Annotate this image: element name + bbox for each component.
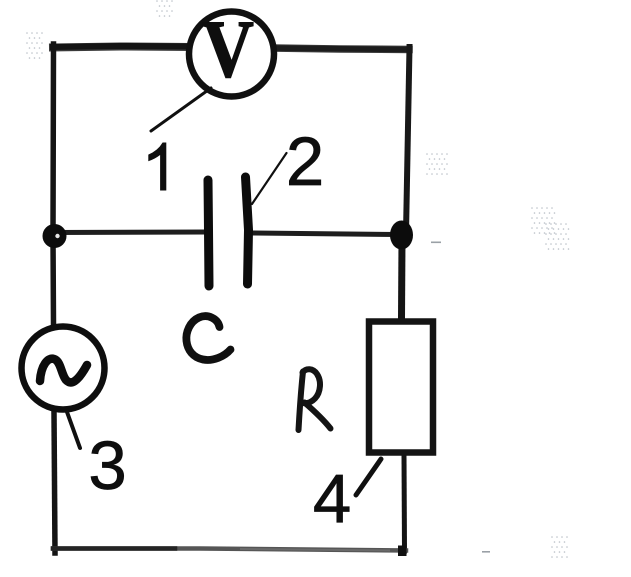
label 3 bbox=[88, 427, 126, 504]
node right junction bbox=[390, 221, 413, 250]
svg-text:V: V bbox=[202, 4, 254, 95]
leader line to label 3 bbox=[67, 412, 80, 448]
AC source G1 circle bbox=[22, 327, 105, 410]
label C (handwritten) bbox=[186, 316, 230, 360]
label 4 bbox=[313, 460, 351, 537]
AC source tilde bbox=[40, 359, 87, 383]
label R (handwritten) bbox=[299, 369, 331, 430]
leader line to label 2 bbox=[252, 153, 287, 204]
wire left vertical bbox=[53, 44, 55, 553]
label 1 bbox=[148, 143, 166, 191]
voltmeter V glyph bbox=[202, 4, 254, 95]
label 2 bbox=[286, 123, 324, 200]
capacitor C1 right plate bbox=[246, 177, 249, 284]
resistor R1 box bbox=[369, 322, 433, 453]
leader line to label 1 bbox=[151, 88, 211, 131]
wire bottom bbox=[53, 546, 407, 557]
wire right vertical junction-to-resistor bbox=[398, 240, 406, 318]
wire middle horizontal left (to capacitor) bbox=[53, 230, 206, 236]
wire right vertical upper bbox=[406, 47, 410, 233]
svg-text:4: 4 bbox=[313, 460, 351, 537]
leader line to label 4 bbox=[356, 459, 381, 495]
wire middle horizontal right (from capacitor) bbox=[250, 233, 398, 235]
svg-text:2: 2 bbox=[286, 123, 324, 200]
capacitor C1 left plate bbox=[208, 180, 209, 286]
voltmeter U1 circle bbox=[189, 12, 274, 97]
svg-text:3: 3 bbox=[88, 427, 126, 504]
wire right vertical below resistor bbox=[402, 455, 408, 551]
wire top-left segment bbox=[53, 46, 188, 48]
wire top-right segment bbox=[273, 48, 409, 50]
node left junction bbox=[43, 224, 67, 248]
